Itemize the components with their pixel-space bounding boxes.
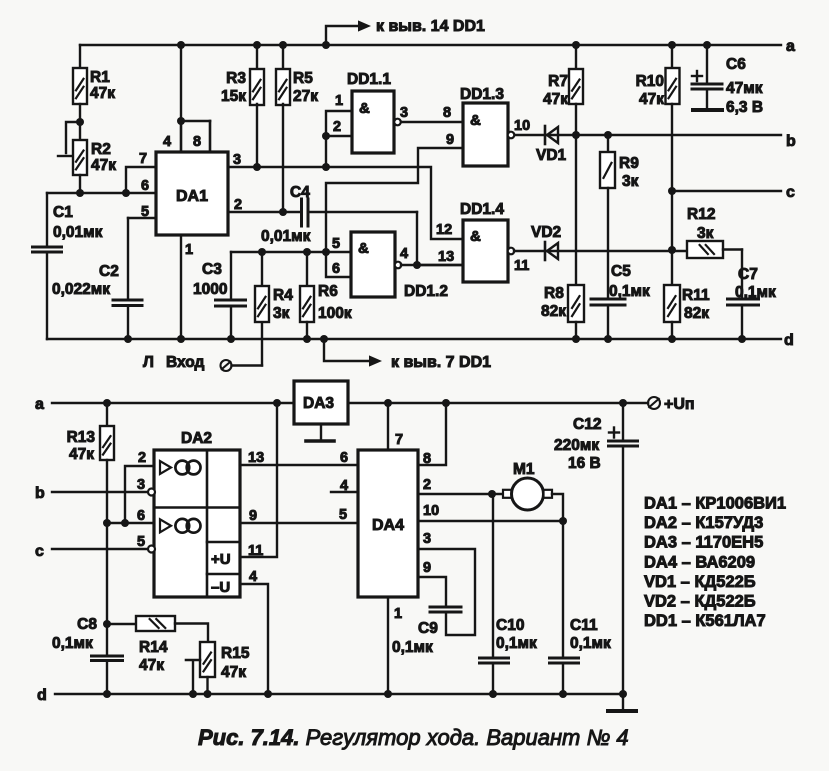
- svg-text:11: 11: [248, 543, 263, 559]
- svg-text:47к: 47к: [639, 91, 664, 108]
- svg-text:1000: 1000: [193, 281, 227, 298]
- svg-text:7: 7: [395, 432, 403, 448]
- svg-text:47к: 47к: [543, 91, 568, 108]
- svg-text:82к: 82к: [684, 305, 709, 322]
- svg-text:a: a: [786, 38, 795, 55]
- svg-text:a: a: [35, 396, 44, 413]
- svg-text:R11: R11: [682, 287, 710, 304]
- svg-text:13: 13: [248, 450, 264, 466]
- svg-text:R4: R4: [273, 287, 293, 304]
- svg-text:2: 2: [138, 450, 146, 466]
- svg-text:к выв. 7 DD1: к выв. 7 DD1: [391, 354, 491, 371]
- svg-text:47мк: 47мк: [726, 80, 763, 97]
- svg-text:3: 3: [400, 105, 408, 121]
- svg-text:82к: 82к: [541, 303, 566, 320]
- svg-text:3: 3: [423, 531, 431, 547]
- svg-text:C12: C12: [573, 416, 601, 433]
- svg-text:VD1 – КД522Б: VD1 – КД522Б: [644, 573, 756, 591]
- svg-text:DD1 – К561ЛА7: DD1 – К561ЛА7: [644, 612, 766, 630]
- svg-text:9: 9: [446, 132, 454, 148]
- svg-text:3к: 3к: [273, 305, 290, 322]
- svg-text:C10: C10: [496, 617, 524, 634]
- svg-text:0,1мк: 0,1мк: [735, 284, 776, 301]
- svg-text:1: 1: [185, 242, 193, 258]
- svg-text:47к: 47к: [91, 157, 116, 174]
- svg-text:DA1 – КР1006ВИ1: DA1 – КР1006ВИ1: [644, 495, 786, 513]
- svg-text:c: c: [35, 543, 44, 560]
- svg-text:6: 6: [141, 178, 149, 194]
- svg-text:C4: C4: [290, 184, 310, 201]
- svg-text:DD1.3: DD1.3: [460, 86, 504, 103]
- svg-text:5: 5: [332, 236, 340, 252]
- svg-text:47к: 47к: [139, 657, 164, 674]
- svg-text:5: 5: [141, 204, 149, 220]
- svg-text:0,022мк: 0,022мк: [52, 281, 110, 298]
- svg-text:C5: C5: [611, 263, 631, 280]
- svg-text:R14: R14: [139, 639, 168, 656]
- svg-text:0,1мк: 0,1мк: [392, 639, 433, 656]
- svg-text:C8: C8: [77, 616, 97, 633]
- svg-text:DA2 – К157УД3: DA2 – К157УД3: [644, 514, 763, 532]
- svg-text:c: c: [786, 184, 795, 201]
- svg-text:–U: –U: [211, 579, 230, 596]
- svg-text:47к: 47к: [69, 446, 94, 463]
- svg-text:C3: C3: [202, 261, 222, 278]
- svg-text:6: 6: [340, 450, 348, 466]
- svg-text:47к: 47к: [221, 664, 246, 681]
- svg-text:3к: 3к: [622, 173, 639, 190]
- svg-text:b: b: [786, 133, 796, 150]
- svg-text:d: d: [784, 332, 794, 349]
- svg-text:C6: C6: [726, 56, 746, 73]
- svg-text:100к: 100к: [318, 305, 352, 322]
- svg-text:VD1: VD1: [536, 147, 567, 164]
- svg-text:2: 2: [234, 197, 242, 213]
- svg-text:М1: М1: [513, 461, 535, 478]
- svg-text:12: 12: [436, 222, 452, 238]
- svg-text:Л: Л: [143, 354, 154, 371]
- svg-text:&: &: [470, 228, 481, 245]
- svg-text:R8: R8: [544, 285, 564, 302]
- svg-text:11: 11: [514, 258, 529, 274]
- svg-text:+U: +U: [211, 551, 231, 568]
- svg-text:b: b: [35, 485, 45, 502]
- svg-text:1: 1: [394, 606, 402, 622]
- svg-text:VD2 – КД522Б: VD2 – КД522Б: [644, 593, 756, 611]
- svg-text:47к: 47к: [90, 85, 115, 102]
- svg-text:0,01мк: 0,01мк: [53, 224, 103, 241]
- svg-text:DA3 – 1170ЕН5: DA3 – 1170ЕН5: [644, 534, 763, 552]
- svg-text:4: 4: [400, 246, 408, 262]
- svg-text:15к: 15к: [221, 88, 246, 105]
- svg-text:9: 9: [423, 560, 431, 576]
- svg-text:R2: R2: [91, 141, 111, 158]
- svg-text:C7: C7: [738, 266, 758, 283]
- svg-text:9: 9: [249, 508, 257, 524]
- svg-text:6: 6: [137, 508, 145, 524]
- svg-text:R15: R15: [221, 645, 250, 662]
- svg-text:220мк: 220мк: [554, 437, 599, 454]
- svg-text:8: 8: [443, 105, 451, 121]
- svg-text:4: 4: [163, 134, 171, 150]
- svg-text:C2: C2: [99, 263, 119, 280]
- svg-text:VD2: VD2: [531, 224, 561, 241]
- svg-text:3: 3: [137, 477, 145, 493]
- svg-text:7: 7: [139, 151, 147, 167]
- svg-text:&: &: [358, 240, 369, 257]
- svg-text:R9: R9: [619, 155, 639, 172]
- svg-text:1: 1: [335, 93, 343, 109]
- svg-text:R1: R1: [90, 69, 110, 86]
- svg-text:2: 2: [423, 477, 431, 493]
- svg-text:4: 4: [249, 569, 257, 585]
- svg-text:3: 3: [233, 152, 241, 168]
- svg-text:DA3: DA3: [303, 395, 334, 412]
- svg-text:DA4: DA4: [372, 517, 404, 534]
- svg-text:6: 6: [332, 261, 340, 277]
- svg-text:0,01мк: 0,01мк: [261, 228, 311, 245]
- svg-text:DA2: DA2: [181, 430, 212, 447]
- svg-text:0,1мк: 0,1мк: [609, 283, 650, 300]
- svg-text:R13: R13: [67, 429, 96, 446]
- svg-text:&: &: [470, 112, 481, 129]
- svg-text:0,1мк: 0,1мк: [570, 635, 611, 652]
- svg-text:8: 8: [193, 134, 201, 150]
- svg-text:8: 8: [423, 451, 431, 467]
- svg-text:к выв. 14 DD1: к выв. 14 DD1: [376, 18, 485, 35]
- svg-text:C9: C9: [418, 620, 438, 637]
- svg-text:R12: R12: [687, 206, 715, 223]
- svg-text:0,1мк: 0,1мк: [52, 635, 93, 652]
- svg-text:Рис. 7.14. Регулятор хода. Вар: Рис. 7.14. Регулятор хода. Вариант № 4: [198, 725, 629, 750]
- svg-text:R6: R6: [318, 283, 338, 300]
- svg-text:13: 13: [438, 249, 454, 265]
- svg-text:5: 5: [339, 507, 347, 523]
- svg-text:0,1мк: 0,1мк: [496, 635, 537, 652]
- svg-text:C11: C11: [570, 617, 598, 634]
- svg-text:3к: 3к: [697, 225, 714, 242]
- svg-text:DA4 – ВА6209: DA4 – ВА6209: [644, 553, 755, 571]
- svg-text:16 В: 16 В: [568, 455, 601, 472]
- svg-text:6,3 В: 6,3 В: [726, 99, 763, 116]
- svg-text:R3: R3: [226, 70, 246, 87]
- svg-text:+Uп: +Uп: [664, 396, 695, 413]
- svg-text:10: 10: [423, 503, 439, 519]
- svg-text:DD1.2: DD1.2: [404, 283, 448, 300]
- svg-text:2: 2: [333, 119, 341, 135]
- svg-text:C1: C1: [53, 204, 73, 221]
- svg-text:R7: R7: [548, 73, 568, 90]
- svg-text:d: d: [37, 687, 47, 704]
- svg-text:DD1.1: DD1.1: [347, 71, 391, 88]
- svg-text:R10: R10: [636, 73, 664, 90]
- svg-text:10: 10: [514, 118, 530, 134]
- svg-text:DD1.4: DD1.4: [460, 201, 504, 218]
- svg-text:Вход: Вход: [166, 354, 204, 371]
- svg-text:5: 5: [137, 534, 145, 550]
- svg-text:&: &: [359, 100, 370, 117]
- svg-text:27к: 27к: [293, 88, 318, 105]
- svg-text:DA1: DA1: [176, 188, 208, 205]
- svg-text:R5: R5: [293, 70, 313, 87]
